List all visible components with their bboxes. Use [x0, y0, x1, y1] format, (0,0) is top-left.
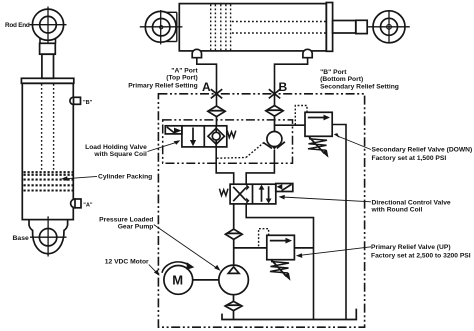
svg-text:(Bottom Port): (Bottom Port): [320, 76, 363, 83]
vertical cylinder clevis: [40, 43, 56, 54]
svg-text:Cylinder Packing: Cylinder Packing: [98, 174, 152, 181]
wire branch B to secondary relief: [275, 124, 306, 126]
load holding valve flow arrow (left position): [190, 128, 196, 147]
primary relief valve body: [267, 235, 295, 259]
wire load holding valve to directional valve: [216, 147, 234, 184]
svg-text:with Square Coil: with Square Coil: [93, 151, 147, 158]
vertical cylinder barrel: [22, 83, 73, 219]
svg-text:Factory set at 2,500 to 3200 P: Factory set at 2,500 to 3200 PSI: [371, 252, 471, 259]
svg-text:Secondary Relief Valve (DOWN): Secondary Relief Valve (DOWN): [372, 146, 473, 153]
annotation arrow to gear pump: [154, 225, 221, 271]
pilot line (dotted) from A line to pilot check: [217, 143, 264, 158]
svg-text:Primary Relief Setting: Primary Relief Setting: [128, 82, 198, 89]
annotation arrow to primary relief valve: [296, 247, 371, 258]
secondary relief valve body: [305, 112, 332, 136]
wire from port A to node A: [197, 58, 217, 106]
svg-text:"A" Port: "A" Port: [171, 67, 198, 74]
wire from port B to node B: [275, 58, 308, 106]
annotation arrow to secondary relief valve: [334, 133, 371, 149]
secondary relief valve spring: [308, 139, 327, 151]
wire primary relief valve outlet: [294, 247, 313, 249]
secondary relief valve pilot line (dotted): [295, 106, 307, 126]
secondary relief valve adjustment arrow: [309, 137, 329, 158]
wire secondary relief valve outlet to tank: [332, 125, 346, 320]
node A crossing mark: [211, 89, 222, 98]
vertical cylinder top cap: [21, 78, 73, 83]
horizontal cylinder left eye: [140, 10, 183, 44]
primary relief valve pilot line (dotted): [259, 229, 269, 248]
primary relief valve adjustment arrow: [271, 260, 291, 281]
wire check valve to pump: [233, 239, 235, 265]
electric motor: [164, 266, 193, 295]
port A on vertical cylinder: [71, 199, 81, 208]
svg-text:Load Holding Valve: Load Holding Valve: [85, 144, 147, 151]
label Directional Control Valve: [371, 199, 451, 213]
check valve on B line: [266, 106, 283, 117]
svg-text:Base: Base: [13, 235, 29, 242]
svg-text:Rod End: Rod End: [5, 22, 30, 29]
vertical cylinder rod-end eye: [30, 7, 67, 44]
primary relief valve spring: [270, 262, 289, 274]
svg-text:Pressure Loaded: Pressure Loaded: [99, 217, 153, 224]
cylinder packing band: [24, 172, 73, 190]
directional valve solenoid (round coil): [276, 184, 293, 192]
vertical cylinder rod: [42, 54, 54, 78]
svg-text:"B": "B": [83, 100, 93, 106]
power unit enclosure boundary (dash-dot): [158, 94, 364, 327]
load holding valve check (right position): [208, 126, 224, 147]
wire pilot check to directional valve: [246, 150, 274, 185]
annotation arrow to directional valve: [279, 195, 371, 202]
load holding valve body: [182, 126, 227, 147]
port B on vertical cylinder: [70, 97, 81, 104]
wire A check to load holding valve: [216, 117, 218, 126]
label "B" Port (Bottom Port) Secondary Relief Setting: [320, 69, 399, 91]
horizontal cylinder barrel: [179, 4, 326, 51]
directional valve spring W: [219, 189, 228, 196]
vertical cylinder base clevis: [29, 220, 68, 254]
annotation arrow to load holding valve: [148, 140, 181, 151]
svg-text:Factory set at 1,500 PSI: Factory set at 1,500 PSI: [372, 155, 447, 162]
gear pump: [219, 265, 249, 295]
port B stub on horizontal cylinder: [303, 49, 312, 57]
svg-text:Directional Control Valve: Directional Control Valve: [372, 199, 451, 206]
pilot-operated check valve with seat on B line: [263, 132, 285, 150]
wire pump to suction check: [233, 295, 235, 302]
label Secondary Relief Valve: [372, 146, 473, 162]
wire B check down to pilot check: [274, 116, 276, 132]
check valve on A line: [208, 106, 225, 117]
annotation arrow to motor: [149, 265, 160, 276]
label Load Holding Valve with Square Coil: [85, 144, 147, 158]
svg-text:"A": "A": [83, 203, 93, 209]
suction check valve below pump: [225, 301, 242, 310]
label Pressure Loaded Gear Pump: [99, 217, 153, 231]
horizontal cylinder rod: [333, 21, 356, 34]
port A stub on horizontal cylinder: [192, 49, 201, 57]
vertical cylinder internal rod dashed: [42, 84, 54, 171]
tank / reservoir: [222, 309, 356, 320]
label Primary Relief Valve: [371, 244, 471, 260]
load holding valve solenoid (square coil): [165, 126, 182, 134]
motor-pump shaft: [193, 279, 219, 281]
directional valve parallel arrows (right position): [259, 185, 272, 204]
wire suction check to tank: [233, 311, 235, 320]
svg-text:"B" Port: "B" Port: [320, 69, 347, 76]
svg-text:Secondary Relief Setting: Secondary Relief Setting: [320, 84, 399, 91]
horizontal cylinder rod clevis: [356, 20, 367, 33]
svg-text:with Round Coil: with Round Coil: [371, 207, 423, 214]
wire directional valve to pump check: [233, 204, 235, 229]
horizontal cylinder piston seals dashed: [211, 5, 231, 51]
motor rotation arrow: [162, 262, 194, 273]
load holding valve enclosure (dash-dot): [163, 120, 293, 163]
load holding valve spring W: [227, 131, 236, 138]
directional control valve body: [230, 184, 276, 204]
horizontal cylinder internal rod dashed: [232, 22, 326, 34]
svg-text:A: A: [202, 80, 211, 94]
horizontal cylinder right eye: [367, 10, 410, 44]
node B crossing mark: [269, 89, 280, 98]
check valve above pump: [225, 229, 242, 239]
vertical cylinder base eye: [30, 216, 67, 256]
annotation arrow to cylinder packing: [61, 176, 97, 181]
svg-text:M: M: [172, 273, 183, 288]
horizontal cylinder end cap: [326, 3, 332, 52]
svg-text:Gear Pump: Gear Pump: [118, 224, 154, 231]
wire branch to primary relief valve: [234, 247, 267, 249]
directional valve crossed arrows (left position): [233, 184, 249, 204]
svg-text:(Top Port): (Top Port): [166, 75, 197, 82]
svg-text:Primary Relief Valve (UP): Primary Relief Valve (UP): [371, 244, 451, 251]
label "A" Port (Top Port) Primary Relief Setting: [128, 67, 198, 89]
wire directional valve return to tank: [246, 204, 313, 320]
svg-text:B: B: [279, 80, 288, 94]
svg-text:12 VDC Motor: 12 VDC Motor: [105, 259, 149, 266]
